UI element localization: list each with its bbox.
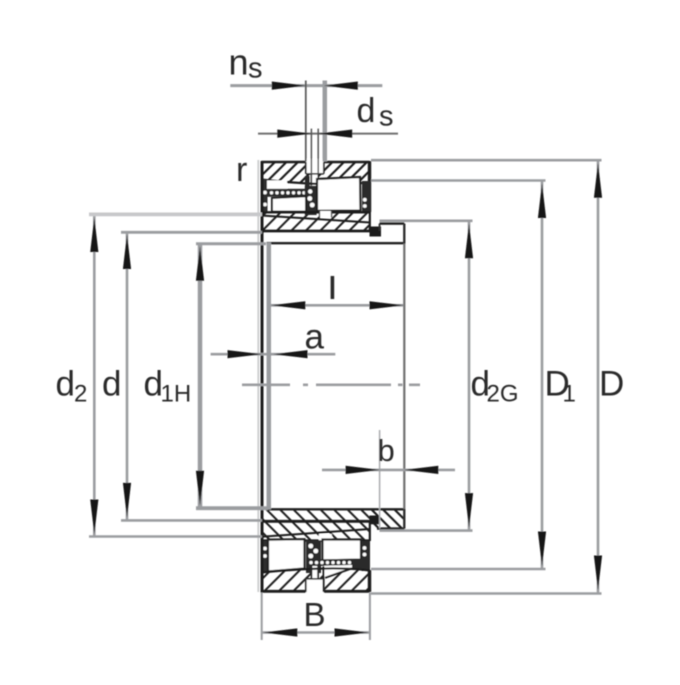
svg-text:r: r — [236, 151, 247, 189]
svg-text:D: D — [599, 365, 624, 404]
svg-text:2: 2 — [74, 381, 87, 408]
svg-text:B: B — [304, 596, 326, 633]
svg-text:1H: 1H — [161, 381, 192, 408]
svg-text:s: s — [248, 53, 263, 85]
svg-text:2G: 2G — [487, 381, 519, 408]
svg-text:d: d — [102, 365, 121, 404]
svg-text:d: d — [56, 365, 75, 404]
svg-text:1: 1 — [563, 381, 576, 408]
svg-text:a: a — [305, 318, 325, 357]
svg-text:b: b — [378, 433, 395, 468]
svg-text:d: d — [357, 92, 376, 130]
svg-text:n: n — [229, 42, 249, 83]
svg-text:s: s — [379, 101, 394, 133]
